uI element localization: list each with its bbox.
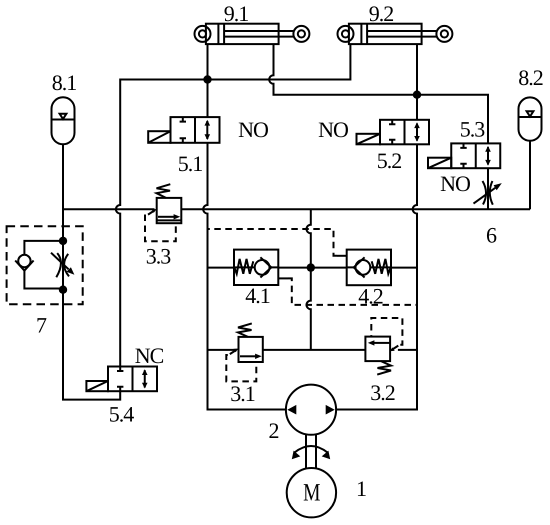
svg-text:5.3: 5.3 (460, 117, 486, 142)
svg-text:1: 1 (356, 476, 366, 501)
svg-text:4.1: 4.1 (245, 283, 270, 308)
svg-text:7: 7 (36, 313, 47, 338)
svg-text:9.2: 9.2 (369, 1, 394, 26)
svg-text:5.2: 5.2 (377, 148, 402, 173)
svg-text:2: 2 (269, 418, 279, 443)
svg-text:8.2: 8.2 (518, 65, 543, 90)
svg-text:9.1: 9.1 (224, 1, 249, 26)
svg-text:8.1: 8.1 (52, 70, 77, 95)
svg-text:NC: NC (135, 343, 164, 368)
svg-text:NO: NO (318, 117, 348, 142)
svg-text:3.1: 3.1 (230, 381, 255, 406)
svg-text:NO: NO (238, 117, 268, 142)
svg-text:NO: NO (440, 171, 470, 196)
svg-text:5.1: 5.1 (178, 151, 203, 176)
svg-text:3.3: 3.3 (146, 244, 172, 269)
svg-text:6: 6 (486, 223, 497, 248)
svg-text:5.4: 5.4 (109, 402, 135, 427)
svg-text:4.2: 4.2 (358, 284, 383, 309)
svg-text:M: M (303, 480, 320, 507)
svg-text:3.2: 3.2 (370, 380, 395, 405)
